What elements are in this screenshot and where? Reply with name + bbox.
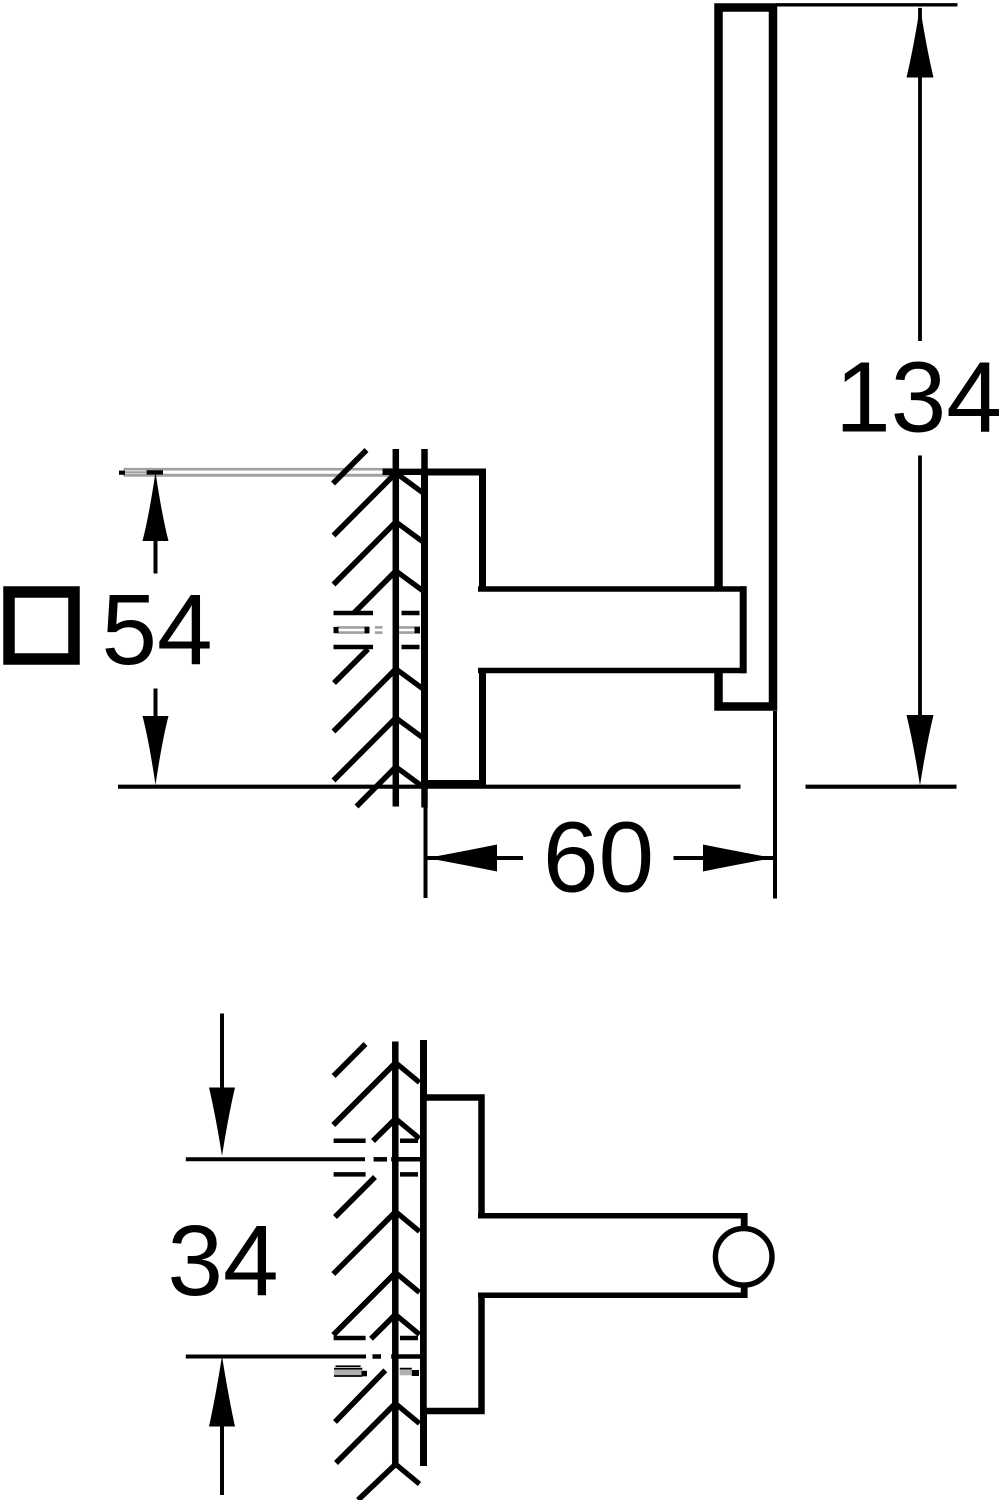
wall line 2 (fig2)	[420, 1040, 427, 1466]
arrow up (134)	[907, 7, 934, 78]
mounting plate (fig1)	[425, 472, 483, 784]
arrow up (54)	[143, 472, 169, 541]
dimension 34	[220, 1014, 224, 1496]
black dashes on centerline (fig1)	[334, 627, 421, 633]
svg-text:134: 134	[835, 342, 1002, 454]
ground projection line	[118, 785, 741, 789]
arrow left (60)	[427, 845, 497, 872]
wall hatch strokes (fig2)	[333, 1044, 395, 1500]
gray dash-dot centerline (fig1)	[338, 627, 421, 632]
horizontal arm (fig1)	[478, 589, 743, 671]
centerline 1 (fig2)	[186, 1157, 426, 1161]
dimension 60	[426, 711, 776, 899]
plate top edge left extension (fig1)	[383, 469, 427, 475]
square symbol	[9, 592, 74, 659]
horizontal arm (fig2)	[478, 1216, 744, 1296]
arrow up (34)	[209, 1356, 235, 1427]
hatch break caps around centerline (fig1)	[334, 613, 420, 647]
svg-text:34: 34	[167, 1205, 278, 1317]
arrow down (134)	[907, 715, 934, 786]
dimension 54 line	[154, 539, 158, 718]
centerline 2 (fig2)	[186, 1355, 426, 1359]
top projection line	[776, 3, 958, 6]
arrow down (34)	[209, 1088, 235, 1157]
hatch break caps around centerline 1 (fig2)	[334, 1141, 418, 1175]
chevron marks between wall lines (fig1)	[396, 473, 423, 787]
wall line 1 (fig2)	[392, 1042, 399, 1465]
arm end edge (fig2)	[741, 1213, 748, 1298]
knob circle at arm end (fig2)	[715, 1229, 772, 1286]
hidden edge gray line (top of plate projected left)	[124, 469, 393, 475]
chevron marks between wall lines (fig2)	[396, 1063, 420, 1484]
arm end edge (fig1)	[740, 586, 747, 673]
arrow down (54)	[143, 716, 169, 785]
dimension 134	[918, 8, 922, 716]
arrow right (60)	[703, 845, 774, 872]
svg-text:60: 60	[543, 802, 654, 914]
wall hatch strokes (fig1)	[333, 450, 396, 807]
svg-text:54: 54	[101, 574, 212, 686]
hatch break caps around centerline 2 (fig2)	[334, 1336, 418, 1341]
vertical post of holder (fig1)	[719, 8, 774, 707]
gray lower cap band (fig2 centerline 2)	[334, 1366, 419, 1376]
wall line 1 (fig1)	[393, 449, 400, 807]
black tick at start of gray line	[119, 471, 125, 475]
wall line 2 (fig1)	[421, 449, 428, 808]
mounting plate (fig2)	[424, 1098, 482, 1412]
